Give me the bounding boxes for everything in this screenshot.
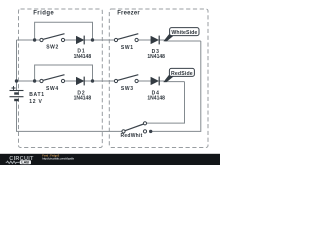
svg-text:12 V: 12 V [29,99,43,105]
wire: row1 bypass loop [35,22,93,40]
net flag RedSide [163,68,194,82]
label SW2 [46,44,59,50]
wire: battery positive vertical riser [16,40,18,91]
svg-text:1N4148: 1N4148 [74,96,92,102]
label D3 [152,49,160,55]
switch SW4 [40,75,65,83]
svg-text:SW2: SW2 [46,44,59,50]
diode D3 [151,36,159,45]
svg-text:1N4148: 1N4148 [147,54,165,60]
label D3 value 1N4148 [147,54,165,60]
label SW4 [46,86,59,92]
svg-text:LAB: LAB [21,161,29,165]
Freezer label [117,11,140,17]
schematic title [42,154,59,157]
svg-text:Fridge: Fridge [33,11,54,17]
label SW1 [121,45,134,51]
label D2 [77,90,85,96]
junction node row2 left [33,79,36,82]
svg-text:RedSide: RedSide [171,71,193,77]
label D1 [77,49,85,55]
Freezer enclosure box [109,9,208,148]
svg-text:1N4148: 1N4148 [74,54,92,60]
label D4 [152,90,160,96]
junction node battery row2 tap [15,79,18,82]
label BAT1 [29,92,45,98]
junction node row1 right [91,38,94,41]
svg-text:SW1: SW1 [121,45,134,51]
wire: RedSide right drop [147,82,185,124]
svg-text:SW4: SW4 [46,86,59,92]
wire: battery negative bottom run [17,100,123,131]
svg-text:RedWhit: RedWhit [121,133,143,139]
diode D1 [76,36,84,45]
wire: row1 main horizontal [17,40,201,41]
diode D4 [151,77,159,86]
svg-text:1N4148: 1N4148 [147,96,165,102]
svg-text:WhiteSide: WhiteSide [171,30,197,36]
junction node row2 right [91,79,94,82]
switch SW3 [114,75,138,83]
battery BAT1 [10,91,24,101]
footer bar [0,154,220,165]
switch RedWhit SPDT [122,122,147,133]
label RedWhit [121,133,143,139]
wire: WhiteSide right drop [151,41,201,131]
net flag WhiteSide [163,28,199,42]
svg-text:http://circuitlab.com/c6qat9e: http://circuitlab.com/c6qat9e [42,156,74,160]
label BAT1 value 12 V [29,99,43,105]
schematic URL [42,156,74,160]
label SW3 [121,86,134,92]
wire: row2 bypass loop [35,65,93,81]
svg-text:Freezer: Freezer [117,11,140,17]
junction node row1 left [33,38,36,41]
svg-text:BAT1: BAT1 [29,92,45,98]
Fridge enclosure box [19,9,103,148]
switch SW2 [40,34,65,42]
CircuitLab logo [6,156,34,164]
label D1 value 1N4148 [74,54,92,60]
label D2 value 1N4148 [74,96,92,102]
Fridge label [33,11,54,17]
junction node bottom throw [149,130,152,133]
switch SW1 [114,34,138,42]
battery positive sign [12,86,16,90]
diode D2 [76,77,84,86]
wire: row2 main horizontal [17,80,185,83]
label D4 value 1N4148 [147,96,165,102]
svg-text:SW3: SW3 [121,86,134,92]
